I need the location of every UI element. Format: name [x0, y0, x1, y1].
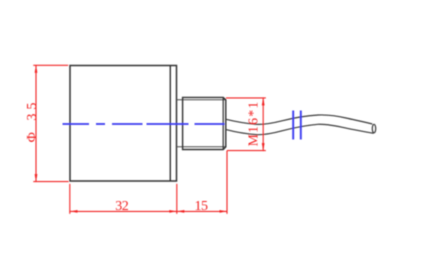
- dimension phi35 line: [35, 65, 37, 181]
- dimension phi35 extension top: [33, 64, 68, 66]
- body end-cap line: [169, 66, 171, 182]
- dimension phi35 arrow bottom: [35, 174, 38, 182]
- dimension phi35 arrow top: [35, 65, 38, 73]
- dimension 15 extension right: [226, 151, 228, 214]
- centerline: [63, 123, 225, 125]
- cable break mark left: [292, 111, 294, 140]
- dimension M16 arrow bottom: [262, 143, 265, 151]
- svg-text:15: 15: [195, 199, 209, 214]
- thread chamfer line: [222, 97, 224, 149]
- dimension 32/15 shared extension: [176, 184, 178, 214]
- cable end cap: [372, 124, 375, 133]
- cable lower outline: [226, 124, 374, 134]
- dimension 32 extension left: [69, 184, 71, 214]
- dimension phi35 extension bottom: [33, 181, 68, 183]
- dimension 32/15 line: [70, 210, 227, 212]
- threaded stub M16 outline: [183, 97, 226, 149]
- dimension M16 line: [262, 98, 264, 151]
- thread minor-diameter line top: [177, 99, 226, 101]
- svg-text:Φ 35: Φ 35: [25, 99, 40, 143]
- dimension 15 arrow left: [177, 210, 185, 213]
- svg-text:M16*1: M16*1: [245, 100, 260, 146]
- thread minor-diameter line bottom: [177, 146, 226, 148]
- dimension M16 extension top: [226, 97, 266, 99]
- dimension 15 arrow right: [220, 210, 228, 213]
- cable break mark right: [300, 111, 302, 140]
- dimension M16 extension bottom: [227, 150, 266, 152]
- svg-text:32: 32: [115, 199, 129, 214]
- dimension 32 arrow left: [70, 210, 78, 213]
- dimension 32 arrow right: [169, 210, 177, 213]
- cable upper outline: [226, 115, 372, 124]
- dimension M16 arrow top: [262, 98, 265, 106]
- body cylinder outline: [70, 66, 177, 182]
